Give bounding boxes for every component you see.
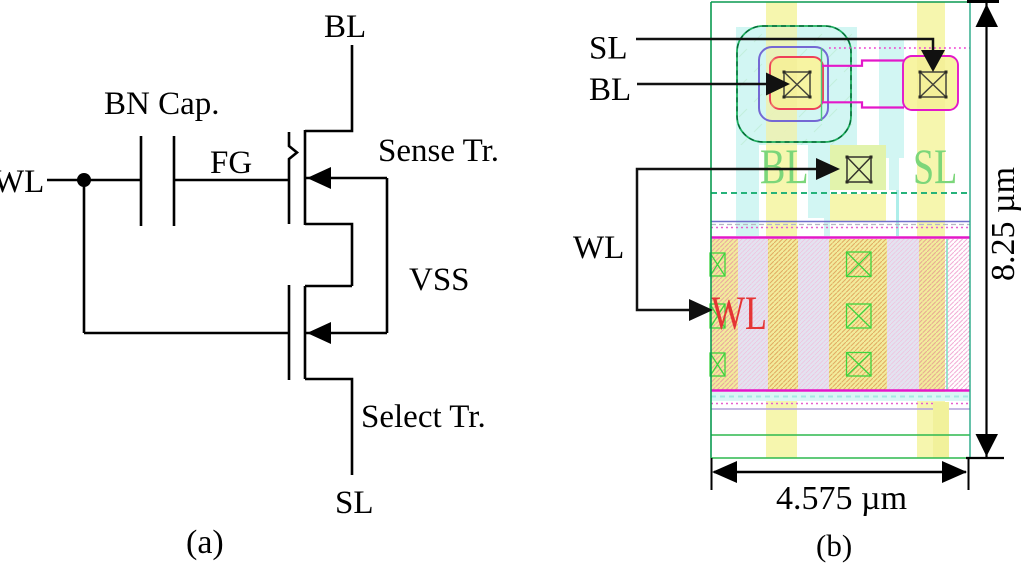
via green x-box row1 right (847, 252, 872, 277)
svg-text:Select Tr.: Select Tr. (361, 399, 486, 435)
via green x-box row3 left (710, 353, 725, 376)
via green x-box row2 left (710, 304, 725, 328)
transistor Q2 select gate line (288, 285, 291, 380)
via green x-box row1 left (710, 253, 725, 276)
WL band base pink hatch (711, 239, 970, 390)
metal1 cyan column right (879, 40, 904, 158)
blue line (711, 221, 970, 223)
WL band yellow column 1 (711, 239, 738, 390)
transistor Q1 sense gate line with floating-gate kink (289, 132, 297, 224)
transistor Q1 bulk arrow (307, 167, 331, 189)
green edge line (821, 48, 823, 121)
metal1 cyan line right (896, 190, 899, 236)
wire Q2 source stub to SL (305, 379, 352, 475)
svg-text:(a): (a) (186, 524, 224, 561)
dotted magenta line upper (829, 47, 970, 49)
svg-text:WL: WL (0, 164, 44, 200)
svg-text:Sense Tr.: Sense Tr. (378, 133, 499, 169)
svg-text:BN Cap.: BN Cap. (104, 86, 220, 122)
transistor Q2 channel line (304, 286, 307, 379)
WL band yellow column 3 (829, 239, 887, 390)
WL band gray column 3 (887, 239, 919, 390)
svg-text:BL: BL (589, 72, 631, 108)
dimension vertical 8.25um (967, 0, 999, 3)
contact pad WL green square (830, 145, 886, 190)
magenta solid line bottom of WL band (711, 389, 970, 391)
wire Q2 drain stub (305, 285, 352, 288)
contact BL x-box (784, 72, 810, 97)
wire WL to node (47, 179, 141, 182)
svg-text:FG: FG (210, 145, 252, 181)
WL band gray column 1 (738, 239, 768, 390)
transistor Q2 bulk arrow (307, 322, 331, 344)
cell border right (969, 2, 971, 458)
wire Q1 bulk stub (305, 177, 387, 180)
poly stripe over metal1 (766, 27, 797, 145)
wire VSS vertical (386, 178, 389, 333)
metal trace bottom (822, 102, 904, 107)
wire WL to select gate (84, 332, 290, 335)
capacitor BN Cap. plate right (173, 136, 176, 226)
active rounded rect green (737, 26, 851, 142)
svg-text:(b): (b) (816, 528, 852, 563)
wire WL vertical drop (83, 180, 86, 333)
transistor Q1 channel line (304, 130, 307, 225)
svg-text:WL: WL (711, 287, 767, 340)
green dashed line (711, 192, 970, 194)
svg-text:BL: BL (324, 9, 366, 45)
arrow BL to pad (637, 83, 768, 86)
pad SL magenta rounded rect (903, 56, 958, 110)
arrow SL to pad (636, 39, 933, 52)
cell border top (711, 1, 970, 3)
svg-text:WL: WL (573, 230, 624, 266)
svg-text:VSS: VSS (409, 262, 470, 298)
yellow block under green square (830, 194, 886, 222)
via green x-box row3 right (847, 353, 872, 377)
cyan row below band (711, 392, 970, 401)
wire Q2 bulk stub (305, 332, 387, 335)
wire Q1 drain stub (305, 45, 352, 131)
cell border left (710, 2, 712, 458)
arrow WL bracket (637, 169, 818, 310)
WL band gray column 2 (798, 239, 829, 390)
metal1 cyan step right (889, 158, 899, 190)
svg-text:SL: SL (335, 485, 374, 521)
svg-text:SL: SL (913, 139, 957, 194)
magenta dotted line (711, 227, 970, 229)
WL band yellow column 4 (919, 239, 945, 390)
capacitor BN Cap. plate left (140, 136, 143, 226)
green line lower (711, 434, 970, 436)
svg-text:8.25 µm: 8.25 µm (985, 167, 1022, 281)
WL band yellow column 2 (768, 239, 798, 390)
metal trace top (822, 61, 904, 66)
via green x-box row2 right (847, 304, 872, 328)
poly stripe left (yellow) (766, 2, 797, 458)
metal1 cyan column mid (808, 145, 830, 218)
contact WL x-box (847, 157, 871, 182)
poly stripe right deeper sliver (933, 402, 949, 458)
dimension horizontal 4.575um (711, 458, 713, 490)
metal1 region cyan top (736, 27, 857, 145)
svg-text:4.575 µm: 4.575 µm (776, 480, 907, 517)
node A (WL junction dot) (77, 173, 91, 187)
svg-text:SL: SL (589, 31, 628, 67)
wire Q1 source stub (305, 224, 352, 286)
poly stripe over BL pad (771, 59, 797, 108)
svg-text:BL: BL (760, 139, 809, 194)
poly stripe over SL pad (917, 58, 945, 109)
poly stripe right (yellow) (917, 2, 945, 458)
magenta dotted line below band (711, 403, 970, 405)
magenta solid line top of WL band (711, 236, 970, 238)
contact SL x-box (920, 72, 946, 97)
metal1 cyan column left (736, 145, 759, 236)
wire FG (cap to sense gate) (174, 179, 289, 182)
nwell rounded rect blue (759, 47, 828, 121)
metal1 cyan column mid thin (824, 218, 830, 236)
lavender line (711, 408, 970, 410)
WL band cyan-green line (946, 239, 948, 390)
pad BL red rounded rect (770, 57, 823, 109)
gray dashed line (711, 224, 970, 226)
cell border bottom (711, 457, 970, 459)
